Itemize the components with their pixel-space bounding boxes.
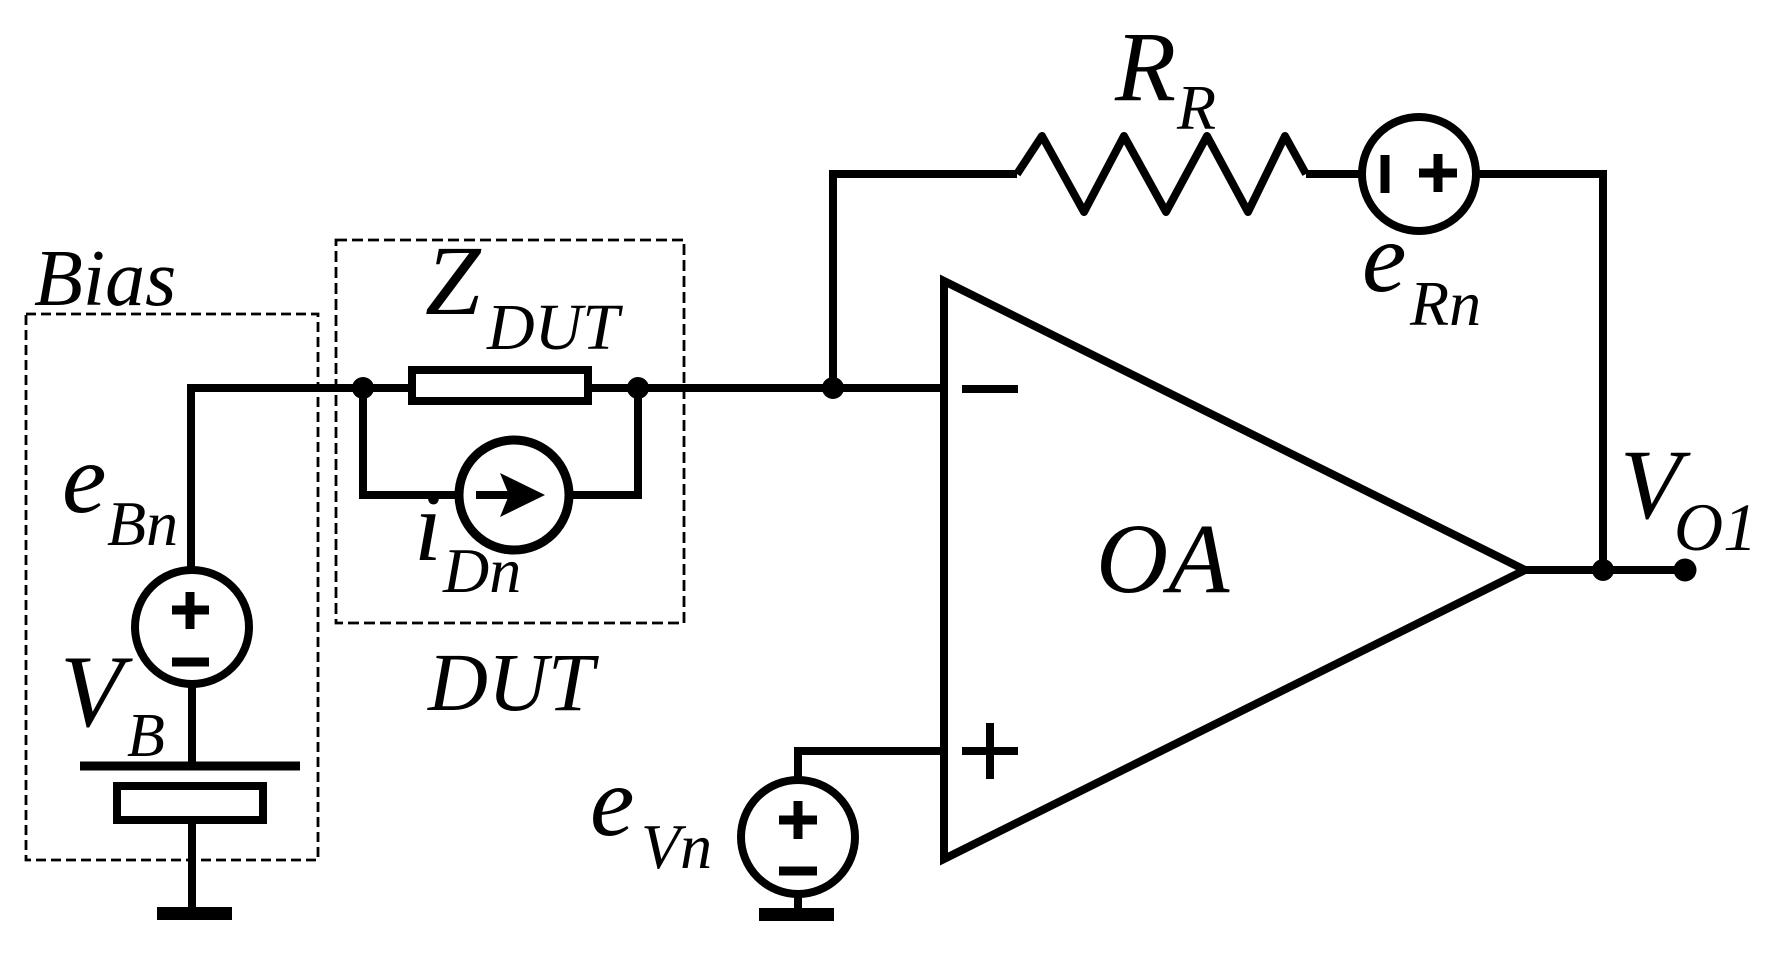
- DUT box (dashed): [336, 240, 684, 623]
- Bias box (dashed): [26, 314, 318, 860]
- svg-text:Rn: Rn: [1409, 268, 1481, 339]
- eVn minus: [779, 867, 817, 876]
- voltage source VB circle: [135, 570, 249, 684]
- node dot: output terminal: [1674, 559, 1697, 582]
- eRn plus: [1419, 154, 1457, 192]
- wire: op-amp output: [1525, 566, 1685, 574]
- eVn plus: [779, 801, 817, 839]
- DUT right branch wire: [570, 388, 638, 495]
- svg-text:DUT: DUT: [427, 636, 600, 728]
- wire: eVn horizontal to non-inverting input: [798, 747, 945, 755]
- wire: eVn vertical: [794, 747, 802, 784]
- wire: feedback top horizontal to resistor: [829, 170, 1017, 178]
- node dot: DUT left: [352, 377, 374, 399]
- svg-text:Vn: Vn: [641, 811, 712, 882]
- op-amp minus input mark: [962, 385, 1018, 393]
- eRn minus (rotated bar): [1381, 155, 1390, 193]
- node dot: output junction: [1592, 559, 1614, 581]
- resistor RR zigzag: [1017, 136, 1306, 212]
- noise source eRn circle: [1362, 117, 1476, 231]
- wire: feedback left vertical: [829, 174, 837, 388]
- ground (eVn): [759, 908, 834, 921]
- svg-text:Bias: Bias: [34, 235, 176, 323]
- svg-text:R: R: [1114, 11, 1176, 122]
- wire: eRn to output corner and down: [1476, 174, 1603, 570]
- current source iDn circle: [459, 440, 569, 550]
- VB minus: [172, 658, 209, 667]
- wire: VB to battery: [188, 684, 196, 766]
- wire: battery to ground: [188, 820, 196, 907]
- node dot: DUT right: [627, 377, 649, 399]
- impedance ZDUT rectangle: [412, 370, 588, 401]
- svg-text:O1: O1: [1674, 489, 1757, 565]
- node dot: feedback junction at inverting input: [822, 377, 844, 399]
- ground (bias): [157, 907, 232, 920]
- svg-text:Bn: Bn: [107, 488, 178, 559]
- op-amp plus input mark: [962, 723, 1018, 779]
- noise source eVn circle: [741, 780, 855, 894]
- svg-text:V: V: [60, 635, 133, 749]
- DUT left branch wire: [363, 388, 460, 495]
- svg-text:e: e: [590, 746, 634, 857]
- wire: resistor to eRn: [1306, 170, 1366, 178]
- svg-text:DUT: DUT: [486, 291, 623, 364]
- iDn arrow shaft: [476, 491, 512, 499]
- battery short plate (hollow): [117, 786, 263, 820]
- wire: eVn to ground: [794, 894, 802, 908]
- svg-text:OA: OA: [1096, 503, 1230, 614]
- svg-text:i: i: [414, 471, 442, 582]
- VB plus: [172, 592, 209, 629]
- op-amp OA triangle: [944, 281, 1525, 859]
- svg-text:Dn: Dn: [442, 535, 521, 606]
- svg-text:e: e: [1362, 202, 1406, 313]
- battery long plate: [80, 762, 300, 771]
- svg-text:e: e: [62, 423, 106, 534]
- iDn arrow head: [500, 473, 545, 517]
- svg-text:Z: Z: [425, 225, 482, 336]
- svg-text:B: B: [127, 702, 165, 770]
- wire: main input net (bias to op-amp inverting input): [191, 384, 945, 392]
- wire: bias vertical drop: [187, 384, 195, 570]
- svg-text:R: R: [1176, 72, 1216, 143]
